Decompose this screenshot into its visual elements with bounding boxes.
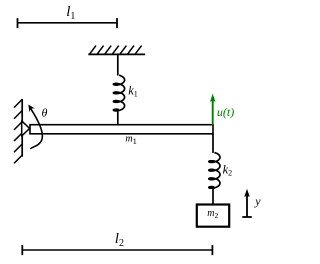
svg-text:u(t): u(t): [217, 105, 234, 119]
svg-text:m1: m1: [125, 133, 136, 146]
svg-text:m2: m2: [207, 208, 218, 220]
svg-text:y: y: [254, 194, 261, 208]
svg-text:θ: θ: [42, 106, 48, 120]
